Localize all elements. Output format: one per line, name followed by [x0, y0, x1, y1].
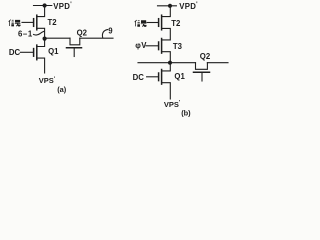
- svg-text:9: 9: [108, 26, 113, 35]
- node VPD junction b: [168, 4, 172, 8]
- svg-text:DC: DC: [9, 48, 21, 57]
- svg-text:φV: φV: [135, 41, 147, 50]
- transistor T3 gate bar (b): [158, 42, 160, 50]
- wire Q1b source: [162, 83, 171, 99]
- svg-text:(a): (a): [57, 85, 67, 94]
- node mid junction b: [168, 61, 172, 65]
- svg-text:T2: T2: [171, 19, 181, 28]
- node 6-1 junction a: [43, 37, 47, 41]
- transistor Q1 channel (b): [161, 70, 163, 85]
- svg-text:VPD': VPD': [53, 2, 72, 11]
- svg-text:6–1: 6–1: [18, 29, 33, 38]
- transistor Q1 gate bar (b): [158, 73, 160, 81]
- leader arc to 9: [102, 30, 107, 38]
- svg-text:Q1: Q1: [48, 47, 59, 56]
- wire mid rail b: [138, 62, 196, 64]
- leader 6-1: [34, 31, 45, 35]
- wire node a to Q2a: [45, 37, 70, 39]
- wire T2a source: [37, 28, 45, 38]
- wire Q1a drain: [37, 41, 45, 47]
- transistor Q2 gate bar (b): [194, 71, 210, 73]
- wire T2b source to T3 drain: [162, 28, 171, 40]
- wire Q1a gate lead: [20, 51, 33, 53]
- transistor T2 gate bar (a): [33, 19, 35, 27]
- transistor Q1 gate bar (a): [33, 49, 35, 57]
- svg-text:Q2: Q2: [200, 52, 211, 61]
- label 信号 (b): [135, 20, 147, 27]
- wire T2a gate lead: [22, 21, 33, 23]
- wire output b: [207, 62, 228, 64]
- wire Q1a source: [37, 58, 45, 73]
- svg-text:T3: T3: [173, 42, 183, 51]
- wire Q1b drain: [162, 65, 171, 71]
- svg-text:VPS': VPS': [39, 76, 56, 85]
- wire Q1b gate lead: [147, 76, 158, 78]
- wire Q2a gate stub: [73, 48, 75, 56]
- wire top rail b: [158, 5, 177, 7]
- transistor Q1 channel (a): [36, 45, 38, 60]
- transistor T2 channel (b): [161, 15, 163, 30]
- transistor Q2 (b) body: [196, 63, 208, 70]
- label 信号 (a): [9, 20, 21, 27]
- wire T2b gate lead: [147, 22, 158, 24]
- svg-text:DC: DC: [133, 73, 145, 82]
- svg-text:Q1: Q1: [174, 72, 185, 81]
- svg-text:T2: T2: [48, 18, 58, 27]
- wire top rail a: [34, 5, 52, 7]
- wire Q2b gate stub: [201, 73, 203, 81]
- svg-text:VPD': VPD': [179, 2, 198, 11]
- transistor T2 gate bar (b): [158, 19, 160, 27]
- node VPD junction a: [43, 3, 47, 7]
- svg-text:(b): (b): [181, 108, 191, 117]
- transistor T3 channel (b): [161, 39, 163, 54]
- transistor T2 channel (a): [36, 15, 38, 30]
- wire output a: [80, 37, 113, 39]
- svg-text:Q2: Q2: [77, 29, 88, 38]
- wire T3b gate lead: [146, 45, 158, 47]
- transistor Q2 (a) body: [70, 38, 80, 45]
- transistor Q2 gate bar (a): [67, 47, 82, 49]
- wire T2b drain: [162, 6, 171, 17]
- wire T2a drain: [37, 6, 45, 17]
- svg-text:VPS': VPS': [164, 100, 181, 109]
- wire T3b source: [162, 52, 171, 63]
